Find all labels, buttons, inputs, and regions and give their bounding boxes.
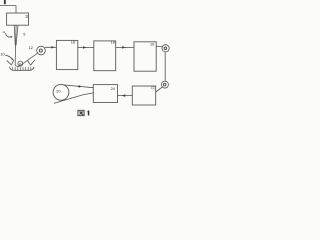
svg-text:19: 19 (150, 41, 154, 46)
bath hatch ticks (13, 67, 31, 70)
wire box16 to box18 arrow (78, 47, 94, 49)
svg-text:4: 4 (3, 29, 6, 34)
wire filament under roller (15, 65, 18, 67)
bottom guide roller (161, 81, 168, 88)
spin head box 3 (7, 13, 29, 25)
svg-text:10: 10 (0, 52, 5, 57)
arrow 4 curved leader (6, 34, 12, 38)
wire box18 to box19 arrow (116, 46, 134, 48)
arrow 10 leader (6, 55, 13, 59)
wire filament exit to godet (19, 54, 37, 67)
box 18 (94, 41, 116, 71)
wire feed line into hopper (0, 6, 16, 13)
wire roller to box 22 (156, 87, 162, 92)
bath left funnel wing (7, 60, 14, 65)
wire godet to box 16 (45, 46, 56, 48)
node 1 feed label tick (4, 0, 6, 4)
box 22 (132, 86, 155, 105)
svg-text:20: 20 (56, 89, 61, 94)
svg-text:22: 22 (151, 85, 155, 90)
top guide roller (162, 45, 169, 52)
box 19 (134, 42, 156, 71)
box 24 (93, 85, 117, 103)
spinneret streams (13, 26, 16, 46)
wire box22 to box24 arrow (118, 95, 133, 97)
filament single line (14, 45, 16, 65)
svg-text:12: 12 (29, 45, 33, 50)
svg-text:16: 16 (71, 40, 75, 45)
bath trough 10 (10, 67, 34, 70)
wire yarn box24 to winder (64, 85, 94, 88)
svg-text:3: 3 (25, 14, 28, 19)
box 16 (56, 40, 77, 69)
wire yarn lower tangent (54, 93, 93, 103)
svg-text:24: 24 (111, 86, 116, 91)
svg-text:18: 18 (111, 40, 115, 45)
wire box19 to top roller (156, 45, 162, 47)
caption 图 1 (78, 110, 84, 115)
bath right funnel wing (27, 60, 34, 65)
svg-text:5: 5 (23, 31, 25, 36)
wire down right side (164, 52, 166, 81)
bath roller 8 (18, 61, 23, 66)
winder drum 20 (53, 84, 69, 100)
godet roller 12 (37, 46, 46, 55)
